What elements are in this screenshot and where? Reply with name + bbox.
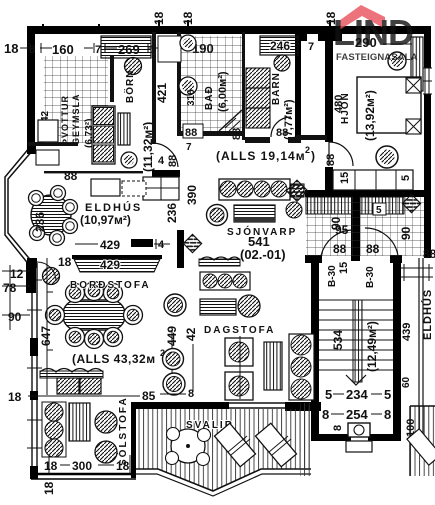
svg-text:88: 88 <box>423 247 435 261</box>
svg-text:88: 88 <box>64 169 78 183</box>
svg-text:(6,00м²): (6,00м²) <box>217 71 229 112</box>
svg-text:7: 7 <box>95 44 101 56</box>
svg-text:(13,92м²): (13,92м²) <box>363 90 377 141</box>
svg-text:HJÓN: HJÓN <box>338 92 351 124</box>
svg-text:15: 15 <box>339 172 351 184</box>
svg-text:246: 246 <box>270 39 290 53</box>
svg-text:88: 88 <box>276 127 288 139</box>
svg-text:18: 18 <box>42 481 56 495</box>
svg-text:88: 88 <box>185 127 197 139</box>
svg-text:88: 88 <box>333 242 347 256</box>
svg-text:85: 85 <box>142 389 156 403</box>
svg-text:8: 8 <box>332 425 344 431</box>
svg-text:ELDHÚS: ELDHÚS <box>421 289 434 340</box>
svg-text:390: 390 <box>185 185 199 205</box>
svg-text:90: 90 <box>399 226 413 240</box>
svg-text:BÖRN: BÖRN <box>123 70 136 103</box>
svg-text:4: 4 <box>158 239 165 251</box>
svg-text:B-30: B-30 <box>365 266 376 288</box>
svg-text:647: 647 <box>39 326 53 346</box>
svg-text:88: 88 <box>167 155 179 167</box>
svg-text:(ALLS 43,32м: (ALLS 43,32м <box>72 352 156 366</box>
svg-text:18: 18 <box>58 255 72 269</box>
svg-text:316: 316 <box>186 89 197 106</box>
svg-text:8: 8 <box>188 388 194 400</box>
svg-text:18: 18 <box>8 390 22 404</box>
svg-text:BORÐSTOFA: BORÐSTOFA <box>70 280 151 291</box>
svg-text:439: 439 <box>401 323 413 341</box>
svg-text:(02.-01): (02.-01) <box>240 247 286 262</box>
svg-text:FASTEIGNASALA: FASTEIGNASALA <box>336 52 418 63</box>
svg-text:5: 5 <box>400 175 412 181</box>
svg-text:8: 8 <box>322 407 329 422</box>
svg-text:254: 254 <box>346 407 368 422</box>
svg-text:534: 534 <box>331 330 345 350</box>
svg-text:LIND: LIND <box>333 12 413 53</box>
svg-text:5: 5 <box>325 387 332 402</box>
svg-text:5: 5 <box>384 387 391 402</box>
svg-text:GEYMSLA: GEYMSLA <box>71 93 81 145</box>
svg-text:236: 236 <box>33 212 47 232</box>
svg-text:18: 18 <box>44 459 58 473</box>
svg-text:ÞVOTTUR: ÞVOTTUR <box>60 95 70 145</box>
svg-text:): ) <box>311 149 315 163</box>
svg-text:421: 421 <box>155 83 169 103</box>
svg-text:18: 18 <box>181 11 195 25</box>
svg-text:88: 88 <box>325 154 337 166</box>
svg-text:8: 8 <box>384 407 391 422</box>
svg-text:236: 236 <box>165 203 179 223</box>
svg-text:88: 88 <box>231 128 243 140</box>
svg-text:42: 42 <box>184 327 198 341</box>
svg-text:SÓLSTOFA: SÓLSTOFA <box>116 396 129 466</box>
svg-text:12: 12 <box>10 267 24 281</box>
svg-text:5: 5 <box>376 205 382 216</box>
svg-text:(11,32м²): (11,32м²) <box>141 122 155 172</box>
svg-text:429: 429 <box>100 258 120 272</box>
svg-text:15: 15 <box>338 262 350 274</box>
svg-text:18: 18 <box>116 459 130 473</box>
svg-text:88: 88 <box>366 242 380 256</box>
svg-text:234: 234 <box>346 387 368 402</box>
svg-text:7: 7 <box>186 142 192 153</box>
svg-text:95: 95 <box>335 223 349 237</box>
svg-text:(ALLS 19,14м: (ALLS 19,14м <box>216 149 306 163</box>
svg-text:60: 60 <box>401 376 412 388</box>
svg-text:4: 4 <box>158 155 165 167</box>
svg-text:(12,49м²): (12,49м²) <box>365 321 379 372</box>
svg-text:160: 160 <box>52 42 74 57</box>
svg-text:2: 2 <box>305 145 310 155</box>
svg-text:BAÐ: BAÐ <box>204 85 215 110</box>
svg-text:18: 18 <box>152 11 166 25</box>
svg-text:(10,97м²): (10,97м²) <box>80 213 131 227</box>
svg-text:7: 7 <box>308 41 314 53</box>
svg-text:449: 449 <box>165 326 179 346</box>
svg-text:DAGSTOFA: DAGSTOFA <box>204 325 275 336</box>
svg-text:B-30: B-30 <box>327 265 338 287</box>
svg-text:300: 300 <box>72 459 92 473</box>
svg-text:429: 429 <box>100 238 120 252</box>
svg-text:18: 18 <box>4 41 18 56</box>
svg-text:BARN: BARN <box>271 72 282 105</box>
